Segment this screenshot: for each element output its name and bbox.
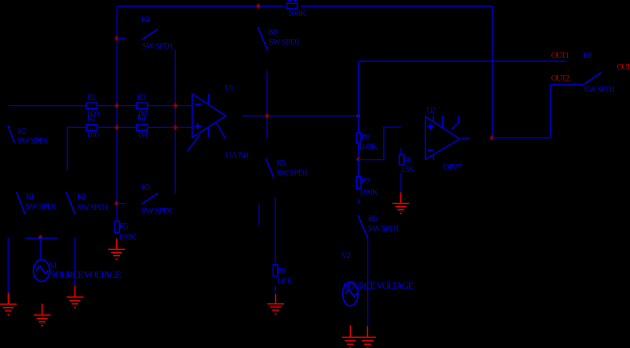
op-amp U1 triangle (192, 94, 226, 138)
svg-text:100K: 100K (360, 187, 380, 197)
op-amp U2 plus sign (427, 124, 433, 130)
op-amp U1 V- pin (207, 128, 209, 138)
switch K5 lever (266, 159, 274, 178)
svg-text:100K: 100K (359, 141, 379, 151)
node junction mid bus R6 R7 (356, 157, 360, 163)
svg-text:100K: 100K (288, 8, 307, 18)
ground below R5 (108, 239, 125, 261)
resistor R4 (137, 125, 148, 131)
wire row1 mid segment (97, 105, 137, 107)
svg-text:SW SPD1: SW SPD1 (77, 202, 109, 212)
wire K8 throw vertical x=267 (266, 71, 268, 139)
node junction K3 R5 (114, 201, 118, 207)
op-amp U1 V+ pin (207, 94, 209, 105)
node junction top wire K8 (256, 3, 260, 9)
op-amp U1 minus sign (195, 103, 201, 105)
wire U1 output row (242, 115, 358, 117)
wire R9 bottom lead (274, 286, 276, 295)
ground below K2 (67, 286, 84, 309)
svg-text:100K: 100K (118, 231, 137, 241)
svg-text:SW SPD1: SW SPD1 (26, 201, 58, 211)
switch K7 lever (8, 126, 15, 143)
ground below K1 (0, 293, 17, 316)
op-amp U1 offset pin 1 (187, 135, 200, 152)
svg-text:1M: 1M (137, 130, 148, 140)
wire mid bus to R7 (357, 160, 359, 177)
source V1 circle (33, 260, 49, 282)
svg-text:K9: K9 (583, 50, 592, 60)
svg-text:K5: K5 (277, 157, 286, 167)
svg-text:R5: R5 (119, 221, 128, 231)
wire left bus vertical x=117 (116, 6, 118, 203)
op-amp U1 plus sign (195, 123, 202, 129)
ground below R9 (267, 294, 284, 314)
source V1 sine (36, 266, 48, 274)
svg-text:SW SPD1: SW SPD1 (277, 168, 309, 178)
resistor R6 (357, 133, 361, 143)
op-amp U2 minus sign (428, 149, 434, 151)
resistor R9 (273, 265, 278, 277)
svg-text:SW SPD1: SW SPD1 (17, 136, 49, 146)
svg-text:K8: K8 (269, 26, 278, 36)
svg-text:U1: U1 (225, 83, 234, 93)
switch K9 lever (585, 73, 602, 84)
wire U2 plus input bend (358, 127, 401, 160)
resistor R7 (357, 177, 361, 189)
resistor R3 (137, 103, 148, 109)
node junction row2 bus (115, 124, 119, 130)
switch K1 lever (17, 192, 26, 214)
svg-text:V2: V2 (341, 250, 351, 260)
ground below R8 (392, 192, 409, 214)
svg-text:U2: U2 (427, 104, 436, 114)
source V2 circle (343, 282, 358, 306)
svg-text:K6: K6 (368, 213, 377, 223)
svg-text:K1: K1 (26, 191, 35, 201)
svg-text:SW SPD1: SW SPD1 (141, 205, 173, 215)
svg-text:K2: K2 (77, 191, 86, 201)
source V2 sine (345, 289, 357, 297)
resistor R1 (86, 103, 97, 109)
label R10 (clipped at top) (288, 0, 291, 1)
wire OUT1 row (358, 60, 566, 62)
svg-text:15K: 15K (401, 164, 416, 174)
svg-text:OUT1: OUT1 (551, 50, 570, 60)
node junction row1 bus (115, 103, 119, 109)
svg-text:R9: R9 (277, 265, 286, 275)
svg-text:SW SPD1: SW SPD1 (142, 40, 174, 50)
ground below V2 (342, 325, 359, 348)
wire top net right of R10 (301, 5, 492, 7)
node junction output mid bus (356, 113, 360, 119)
op-amp U1 offset pin 2 (216, 123, 225, 139)
switch K3 lever (141, 193, 157, 204)
wire K1 K2 bottom row (25, 237, 58, 239)
node junction V1 top (38, 234, 42, 240)
svg-text:SW SPD1: SW SPD1 (368, 223, 400, 233)
resistor R2 (86, 125, 97, 131)
svg-text:OUT: OUT (617, 61, 630, 71)
wire R5 top lead (116, 206, 118, 222)
wire K5 right throw to R9 (274, 198, 276, 263)
wire feedback vertical x=492 (491, 6, 493, 138)
switch K2 lever (66, 192, 75, 215)
svg-text:SOURCE VOLTAGE: SOURCE VOLTAGE (343, 282, 414, 292)
wire K1 column to ground (7, 238, 9, 293)
resistor R10 (287, 3, 297, 9)
wire K2 column to ground (74, 238, 76, 286)
wire row2 right segment to U1 non-inverting input (148, 126, 193, 128)
svg-text:K7: K7 (18, 126, 27, 136)
node junction U2 output net (490, 135, 494, 141)
switch K3 common stub (119, 203, 126, 205)
svg-text:K3: K3 (141, 182, 150, 192)
wire row1 right segment to U1 inverting input (148, 105, 193, 107)
svg-text:SOURCE VOLTAGE: SOURCE VOLTAGE (51, 271, 122, 281)
wire OUT2 row (551, 85, 585, 138)
switch K6 lever (358, 215, 368, 237)
wire R7 bottom stub (358, 199, 360, 204)
wire row2 corner from K2 column (67, 127, 85, 170)
wire K4 common stub (117, 37, 126, 39)
op-amp U2 bent offset pin (451, 116, 458, 130)
op-amp U2 pin b (442, 116, 444, 128)
svg-text:V1: V1 (50, 260, 58, 270)
svg-text:R7: R7 (361, 175, 370, 185)
wire row2 mid segment (97, 126, 137, 128)
wire K5 left throw stub (258, 204, 260, 225)
svg-text:R3: R3 (137, 92, 146, 102)
node junction row1 K4 throw (173, 103, 177, 109)
wire V1 top lead (40, 238, 42, 259)
wire K4 throw bus vertical x=175.3 (174, 50, 176, 194)
ground below K6 wire (359, 326, 376, 348)
node junction output K8 column (265, 113, 269, 119)
wire R6 bottom lead (357, 143, 359, 159)
wire R8 bottom lead (400, 173, 402, 193)
svg-text:R6: R6 (361, 132, 370, 142)
svg-text:R8: R8 (403, 154, 412, 164)
svg-text:K4: K4 (141, 14, 151, 24)
node junction K4 common (115, 35, 119, 41)
switch K8 lever (258, 27, 268, 51)
svg-text:OUT2: OUT2 (551, 73, 570, 83)
switch K4 lever (142, 29, 158, 39)
svg-text:UA741: UA741 (226, 150, 250, 160)
wire row1 left segment (9, 105, 87, 107)
wire mid bus upper vertical from OUT1 corner (357, 61, 359, 133)
wire K6 to ground vertical (367, 237, 369, 326)
op-amp U2 triangle (425, 117, 459, 160)
op-amp U2 bottom pin (432, 155, 434, 160)
resistor R8 (399, 155, 404, 165)
svg-text:R2: R2 (87, 113, 96, 123)
wire U2 output net to OUT2 column (492, 137, 550, 139)
svg-text:100: 100 (86, 130, 99, 140)
svg-text:R1: R1 (87, 92, 96, 102)
node junction row2 K4 throw (173, 124, 177, 130)
svg-text:OP27: OP27 (443, 161, 462, 171)
svg-text:R4: R4 (137, 113, 146, 123)
wire R8 top stub (400, 148, 402, 154)
op-amp U2 pin a (432, 116, 434, 122)
resistor R5 (115, 221, 120, 232)
svg-text:SW SPD1: SW SPD1 (584, 84, 616, 94)
ground below V1 (34, 304, 51, 327)
svg-text:10K: 10K (276, 276, 293, 286)
wire top net from node A to feedback corner (118, 5, 284, 7)
svg-text:SW SPD1: SW SPD1 (269, 37, 301, 47)
wire U2 output stub (461, 137, 470, 139)
